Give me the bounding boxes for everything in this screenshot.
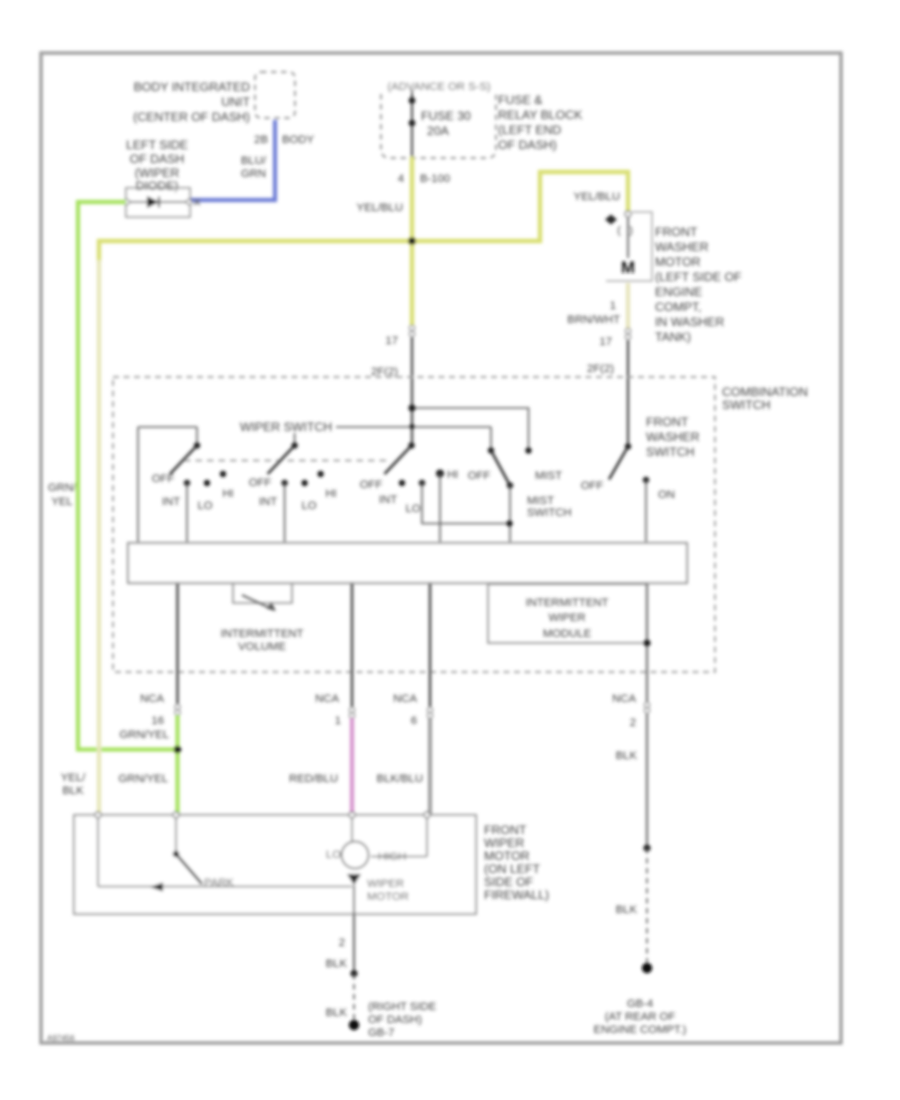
svg-text:20A: 20A [427, 124, 450, 138]
svg-text:(ON LEFT: (ON LEFT [484, 862, 541, 876]
front wiper motor box [74, 812, 549, 914]
svg-text:ON: ON [658, 489, 675, 501]
wiper switch section 1 [152, 427, 234, 543]
svg-text:MIST: MIST [527, 495, 554, 507]
svg-text:YEL/BLU: YEL/BLU [574, 191, 620, 203]
node junction of yellow feed redrawn [408, 237, 416, 245]
wiper switch section 2 [249, 433, 337, 543]
svg-text:FRONT: FRONT [655, 225, 698, 239]
svg-text:OF DASH: OF DASH [130, 152, 185, 166]
svg-text:OFF: OFF [249, 477, 272, 489]
svg-text:BODY: BODY [282, 134, 314, 146]
svg-text:SWITCH: SWITCH [527, 507, 572, 519]
svg-text:OFF: OFF [360, 479, 383, 491]
wire GRN/YEL from diode down left side to junction [48, 202, 174, 750]
svg-text:OFF: OFF [152, 473, 175, 485]
connector 17 on wiper feed wire [385, 325, 414, 347]
svg-text:1: 1 [610, 300, 616, 312]
svg-text:SIDE OF: SIDE OF [484, 875, 534, 889]
svg-text:GRN/YEL: GRN/YEL [118, 773, 168, 785]
svg-text:INTERMITTENT: INTERMITTENT [221, 628, 304, 640]
svg-text:RELAY BLOCK: RELAY BLOCK [498, 108, 583, 122]
wire BLK from wiper motor pin 2 to ground [326, 914, 358, 1022]
svg-text:INTERMITTENT: INTERMITTENT [526, 597, 609, 609]
svg-text:VOLUME: VOLUME [238, 641, 286, 653]
svg-text:BLK: BLK [326, 958, 348, 970]
page border frame [41, 53, 841, 1043]
svg-text:GRN/YEL: GRN/YEL [119, 729, 169, 741]
svg-text:WIPER: WIPER [548, 612, 585, 624]
ground GB-7 [349, 1001, 437, 1039]
svg-text:SWITCH: SWITCH [646, 445, 695, 459]
svg-text:BLK: BLK [616, 750, 638, 762]
svg-text:SWITCH: SWITCH [722, 398, 771, 412]
wire YEL/BLU branch to front washer motor [412, 172, 628, 241]
svg-text:GRN: GRN [241, 168, 266, 180]
wiper motor armature LO/HIGH [326, 818, 427, 914]
svg-text:INT: INT [259, 496, 277, 508]
svg-text:17: 17 [599, 336, 612, 348]
wiper feed wire entering combination switch at 2F(2) [371, 241, 412, 445]
svg-text:2: 2 [630, 717, 636, 729]
svg-text:MIST: MIST [535, 470, 562, 482]
svg-text:BLK: BLK [616, 904, 638, 916]
svg-text:NCA: NCA [612, 693, 636, 705]
svg-text:YEL/: YEL/ [61, 772, 86, 784]
body integrated unit dashed box [133, 72, 295, 124]
svg-text:NCA: NCA [140, 693, 164, 705]
wire module pin 2 BLK to ground GB-4 [612, 583, 650, 964]
svg-text:UNIT: UNIT [221, 95, 250, 109]
svg-text:DIODE): DIODE) [135, 179, 178, 193]
wire module pin 16 GRN/YEL down to wiper motor [118, 583, 181, 815]
connector 17 on washer switch wire [599, 328, 630, 348]
svg-text:LO: LO [301, 500, 316, 512]
svg-text:OFF: OFF [468, 470, 491, 482]
ground GB-4 [594, 963, 687, 1036]
svg-text:2F(2): 2F(2) [371, 366, 398, 378]
svg-text:(LEFT SIDE OF: (LEFT SIDE OF [655, 270, 742, 284]
svg-text:OFF: OFF [581, 480, 604, 492]
svg-text:1: 1 [335, 715, 341, 727]
wire module pin 6 BLK/BLU down to wiper motor [377, 583, 433, 815]
svg-text:(ADVANCE OR S-S): (ADVANCE OR S-S) [387, 81, 491, 93]
svg-text:MODULE: MODULE [543, 628, 592, 640]
svg-text:2F(2): 2F(2) [587, 363, 614, 375]
svg-text:WASHER: WASHER [655, 240, 709, 254]
svg-text:PARK: PARK [204, 877, 234, 889]
fuse 30 20A [409, 90, 471, 157]
wiper switch section 3 [360, 424, 510, 543]
svg-text:BLU/: BLU/ [241, 155, 267, 167]
svg-text:NCA: NCA [315, 693, 339, 705]
svg-text:INT: INT [379, 494, 397, 506]
svg-text:FUSE 30: FUSE 30 [421, 109, 471, 123]
svg-text:WIPER: WIPER [484, 836, 524, 850]
svg-text:17: 17 [385, 335, 398, 347]
svg-text:4: 4 [398, 173, 404, 185]
wire module pin 1 RED/BLU down to wiper motor [289, 583, 355, 815]
svg-text:LEFT SIDE: LEFT SIDE [126, 138, 188, 152]
svg-text:WASHER: WASHER [646, 430, 700, 444]
connector B-100 pin 4 [398, 173, 450, 185]
svg-text:OF DASH): OF DASH) [368, 1014, 422, 1026]
wire to front washer switch entering combination switch at 2F(2) [587, 340, 628, 446]
svg-text:YEL: YEL [51, 496, 72, 508]
svg-text:WIPER: WIPER [367, 878, 404, 890]
svg-text:FRONT: FRONT [484, 823, 527, 837]
intermittent volume (variable resistor) [221, 583, 304, 653]
svg-text:INT: INT [162, 496, 180, 508]
wiper switch contact track (dashed) [184, 460, 390, 462]
wire BRN/WHT from washer motor pin 1 [567, 283, 628, 330]
svg-text:2: 2 [339, 937, 345, 949]
svg-text:(LEFT END: (LEFT END [498, 123, 561, 137]
svg-text:6: 6 [411, 715, 417, 727]
svg-text:16: 16 [151, 715, 164, 727]
svg-text:(WIPER: (WIPER [135, 166, 180, 180]
wire YEL/BLK horizontal feed and left vertical run [61, 241, 412, 815]
svg-text:BODY INTEGRATED: BODY INTEGRATED [134, 80, 251, 94]
park switch inside wiper motor [98, 818, 352, 892]
svg-text:MOTOR: MOTOR [655, 255, 701, 269]
svg-text:FIREWALL): FIREWALL) [484, 888, 549, 902]
intermittent wiper module terminal bar [128, 543, 687, 583]
node junction on yellow feed [408, 237, 416, 245]
intermittent wiper module box [488, 584, 647, 643]
svg-text:B-100: B-100 [420, 173, 450, 185]
svg-text:ENGINE: ENGINE [655, 285, 702, 299]
svg-text:COMBINATION: COMBINATION [722, 385, 808, 399]
svg-text:IN WASHER: IN WASHER [655, 315, 724, 329]
svg-text:2B: 2B [254, 134, 268, 146]
wire BLU/GRN from body integrated unit to wiper diode [190, 120, 314, 200]
svg-text:MOTOR: MOTOR [484, 849, 530, 863]
svg-text:LO: LO [405, 503, 420, 515]
svg-text:BLK: BLK [326, 1007, 348, 1019]
svg-text:A97456: A97456 [47, 1034, 75, 1043]
svg-text:FRONT: FRONT [646, 415, 689, 429]
wiper diode D1 (left side of dash) [124, 138, 200, 217]
svg-text:RED/BLU: RED/BLU [289, 773, 338, 785]
svg-text:MOTOR: MOTOR [367, 891, 409, 903]
svg-text:M: M [621, 258, 635, 277]
combination switch dashed box [113, 377, 808, 672]
svg-text:(AT REAR OF: (AT REAR OF [605, 1011, 676, 1023]
svg-text:ENGINE COMPT.): ENGINE COMPT.) [594, 1024, 687, 1036]
svg-text:YEL/BLU: YEL/BLU [357, 202, 403, 214]
svg-text:WIPER SWITCH: WIPER SWITCH [240, 420, 332, 434]
svg-text:(CENTER OF DASH): (CENTER OF DASH) [133, 110, 250, 124]
svg-text:HI: HI [447, 469, 458, 481]
svg-text:GB-4: GB-4 [627, 998, 653, 1010]
mist switch [408, 404, 571, 543]
front washer switch [581, 415, 700, 543]
svg-text:NCA: NCA [393, 693, 417, 705]
svg-text:GB-7: GB-7 [368, 1027, 394, 1039]
svg-text:HI: HI [325, 488, 336, 500]
svg-text:TANK): TANK) [655, 330, 691, 344]
svg-text:OF DASH): OF DASH) [498, 138, 557, 152]
svg-text:FUSE &: FUSE & [498, 93, 543, 107]
front washer motor M1 [605, 211, 742, 344]
svg-text:GRN/: GRN/ [48, 482, 77, 494]
svg-text:LO: LO [197, 500, 212, 512]
svg-text:BLK: BLK [62, 785, 84, 797]
svg-text:HI: HI [222, 488, 233, 500]
svg-text:BRN/WHT: BRN/WHT [567, 314, 620, 326]
svg-text:(RIGHT SIDE: (RIGHT SIDE [368, 1001, 437, 1013]
fuse &amp; relay block dashed box [381, 79, 583, 158]
svg-text:BLK/BLU: BLK/BLU [377, 773, 423, 785]
svg-text:COMPT,: COMPT, [655, 300, 701, 314]
svg-text:LO: LO [326, 849, 341, 861]
wiper switch label and feed rail [138, 420, 491, 543]
wire YEL/BLU from fuse down to junction node [357, 157, 412, 241]
